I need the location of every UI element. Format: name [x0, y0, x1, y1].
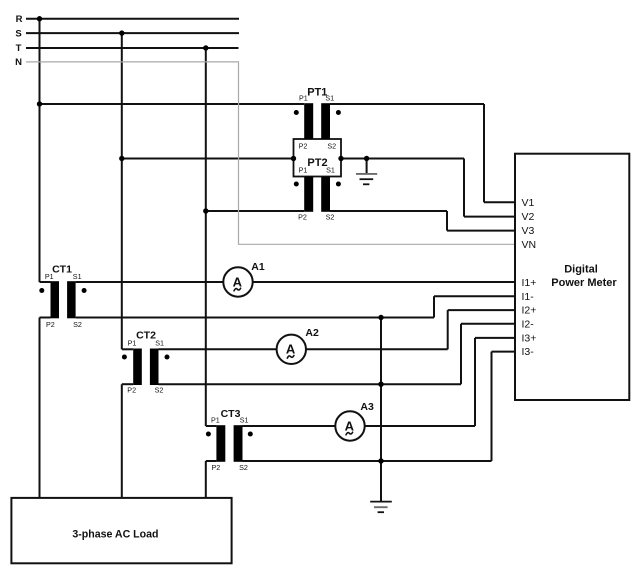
svg-text:S: S [15, 28, 21, 39]
svg-text:P2: P2 [46, 320, 55, 329]
svg-text:A: A [286, 342, 296, 357]
svg-text:S2: S2 [73, 320, 82, 329]
svg-text:A: A [345, 418, 355, 433]
svg-text:S1: S1 [240, 416, 249, 425]
svg-text:Digital: Digital [564, 264, 598, 276]
svg-text:CT1: CT1 [52, 263, 72, 275]
svg-text:VN: VN [522, 239, 537, 251]
svg-text:P1: P1 [211, 416, 220, 425]
svg-text:3-phase AC Load: 3-phase AC Load [72, 529, 158, 541]
svg-text:V3: V3 [522, 225, 535, 237]
svg-text:P2: P2 [299, 142, 308, 151]
svg-text:I2+: I2+ [522, 305, 537, 317]
svg-text:S2: S2 [155, 385, 164, 394]
svg-text:P2: P2 [212, 463, 221, 472]
svg-text:I2-: I2- [522, 318, 535, 330]
svg-text:R: R [16, 14, 23, 25]
svg-text:Power Meter: Power Meter [551, 277, 617, 289]
svg-text:A3: A3 [360, 401, 374, 413]
svg-text:A1: A1 [251, 261, 265, 273]
svg-text:P1: P1 [299, 93, 308, 102]
svg-text:S2: S2 [326, 213, 335, 222]
svg-text:PT1: PT1 [307, 87, 327, 99]
svg-text:I3+: I3+ [522, 333, 537, 345]
svg-text:CT2: CT2 [136, 330, 156, 342]
svg-text:P1: P1 [45, 272, 54, 281]
svg-text:P1: P1 [128, 338, 137, 347]
svg-text:T: T [16, 43, 22, 54]
svg-text:S2: S2 [327, 142, 336, 151]
svg-text:P1: P1 [299, 165, 308, 174]
svg-text:I3-: I3- [522, 346, 535, 358]
svg-text:P2: P2 [298, 213, 307, 222]
svg-text:S1: S1 [326, 165, 335, 174]
svg-text:S1: S1 [155, 338, 164, 347]
svg-text:S1: S1 [73, 272, 82, 281]
svg-text:CT3: CT3 [221, 408, 241, 420]
svg-text:I1+: I1+ [522, 277, 537, 289]
svg-text:A: A [233, 274, 243, 289]
svg-text:I1-: I1- [522, 291, 535, 303]
svg-text:A2: A2 [305, 327, 319, 339]
svg-text:N: N [15, 57, 22, 68]
svg-text:S2: S2 [239, 463, 248, 472]
svg-text:V1: V1 [522, 197, 535, 209]
svg-text:V2: V2 [522, 211, 535, 223]
svg-text:P2: P2 [127, 385, 136, 394]
svg-text:PT2: PT2 [307, 157, 327, 169]
svg-text:S1: S1 [325, 93, 334, 102]
